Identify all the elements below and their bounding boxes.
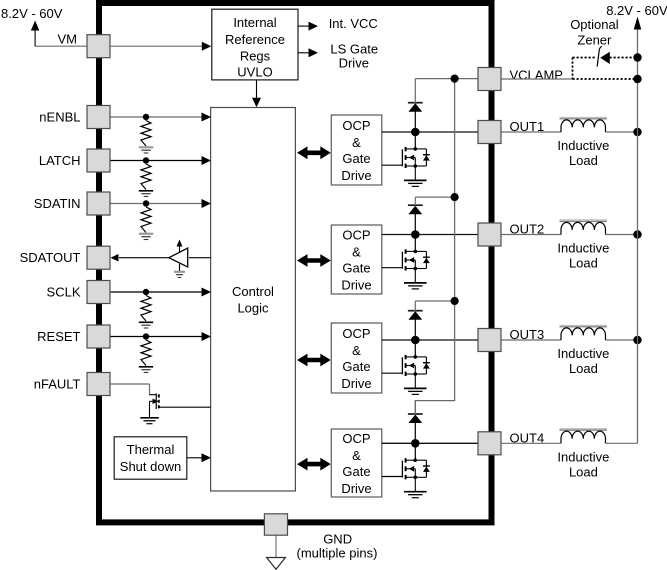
svg-text:OCP: OCP [342, 431, 370, 446]
wire: MOSFET 2 source to ground [414, 269, 416, 283]
pin: nFAULT [87, 373, 110, 396]
pin: RESET [87, 325, 110, 348]
wire: MOSFET 3 source to ground [414, 374, 416, 388]
pin: LATCH [87, 149, 110, 172]
wire: OCP 3 output to OUT3 pin [382, 339, 478, 341]
svg-text:Inductive: Inductive [557, 450, 609, 465]
svg-text:Load: Load [569, 465, 598, 480]
diode: optional zener (cathode left) [597, 46, 602, 66]
wire: OUT1 pin to inductive load [501, 131, 561, 133]
node: OUT4 junction [411, 439, 420, 448]
svg-text:nFAULT: nFAULT [34, 377, 81, 392]
wire: load 4 to supply rail [606, 442, 638, 444]
inductor: OUT1 inductive load [560, 116, 608, 118]
wire: OUT3 pin to inductive load [501, 339, 561, 341]
pin: VCLAMP [478, 68, 501, 91]
transistor M3: low-side NMOS [401, 357, 403, 374]
block: Control Logic [211, 108, 296, 492]
svg-text:OCP: OCP [342, 228, 370, 243]
wire: zener branch dotted upper right [610, 57, 635, 59]
wire: thermal shutdown to control logic (arrow) [187, 457, 203, 459]
inductor: OUT3 inductive load [560, 324, 608, 326]
wire: diode anode to OUT junction [414, 422, 416, 440]
wire: load 1 to supply rail [606, 131, 638, 133]
wire: junction to MOSFET drain [414, 340, 416, 356]
wire: supply vertical with up arrow [34, 31, 36, 47]
svg-text:RESET: RESET [37, 329, 80, 344]
node: clamp bus junction 1 [451, 75, 459, 83]
svg-text:Int. VCC: Int. VCC [329, 16, 378, 31]
pin: SCLK [87, 281, 110, 304]
svg-text:Drive: Drive [341, 168, 371, 183]
wire: reference block to control logic (down arrow) [256, 80, 258, 99]
ground: RESET pulldown ground [139, 366, 153, 368]
svg-text:&: & [352, 135, 361, 150]
junction node on RESET line [143, 333, 149, 339]
svg-text:SCLK: SCLK [47, 285, 81, 300]
transistor M1: low-side NMOS [401, 149, 403, 166]
wire: LS Gate Drive output arrow [298, 52, 309, 54]
svg-text:nENBL: nENBL [39, 110, 80, 125]
svg-text:Drive: Drive [339, 55, 369, 70]
wire: MOSFET 1 source to ground [414, 166, 416, 180]
wire: Int. VCC output arrow [298, 25, 309, 27]
svg-text:VCLAMP: VCLAMP [510, 68, 563, 83]
svg-text:Thermal: Thermal [127, 442, 175, 457]
pin: OUT4 [478, 432, 501, 455]
pin: OUT3 [478, 329, 501, 352]
wire: RESET pin to control logic [110, 336, 203, 338]
wire: load 2 to supply rail [606, 234, 638, 236]
svg-text:Load: Load [569, 153, 598, 168]
svg-text:8.2V - 60V: 8.2V - 60V [1, 6, 63, 21]
wire: OCP 2 output to OUT2 pin [382, 234, 478, 236]
svg-text:SDATIN: SDATIN [34, 196, 81, 211]
junction node on nENBL line [143, 114, 149, 120]
svg-text:Reference: Reference [225, 32, 285, 47]
block: Thermal Shut down [114, 437, 187, 479]
ground: MOSFET 2 source ground [404, 282, 427, 284]
wire: diode anode to OUT junction [414, 319, 416, 337]
wire: load 3 to supply rail [606, 339, 638, 341]
svg-text:SDATOUT: SDATOUT [20, 250, 81, 265]
svg-text:Inductive: Inductive [557, 241, 609, 256]
svg-text:GND: GND [323, 532, 352, 547]
wire: diode anode to OUT junction [414, 214, 416, 232]
wire: junction to MOSFET drain [414, 443, 416, 459]
svg-text:Optional: Optional [570, 17, 619, 32]
junction node on SCLK line [143, 289, 149, 295]
wire: OCP 1 gate drive to MOSFET [382, 164, 403, 166]
ground: SCLK pulldown ground [139, 321, 153, 323]
node: rail junction OUT2 [633, 230, 641, 238]
pin: SDATIN [87, 192, 110, 215]
node: clamp bus junction 3 [451, 297, 459, 305]
wire: OCP 2 gate drive to MOSFET [382, 267, 403, 269]
wire: VM supply horizontal [35, 45, 87, 47]
wire: right supply rail vertical [637, 29, 639, 443]
svg-text:Drive: Drive [341, 376, 371, 391]
wire: GND pin to ground symbol [275, 535, 277, 557]
svg-text:Gate: Gate [342, 261, 370, 276]
pin: nENBL [87, 106, 110, 129]
transistor M2: low-side NMOS [401, 252, 403, 269]
IC device outline [99, 3, 492, 522]
node: rail junction OUT3 [633, 336, 641, 344]
resistor: SCLK pulldown [141, 296, 151, 322]
svg-text:Logic: Logic [237, 301, 269, 316]
wire: fault MOSFET drain to control logic [159, 406, 211, 408]
svg-text:&: & [352, 343, 361, 358]
node: OUT1 junction [411, 128, 420, 137]
ground: GND open triangle symbol [267, 558, 286, 570]
svg-text:(multiple pins): (multiple pins) [297, 545, 378, 560]
wire: SCLK pin to control logic [110, 291, 203, 293]
wire: MOSFET 4 source to ground [414, 478, 416, 492]
ground: buffer ground [174, 271, 185, 273]
svg-text:OCP: OCP [342, 118, 370, 133]
wire: VCLAMP wire from diode 1 to pin [415, 78, 478, 80]
block: OCP & Gate Drive channel 2 [331, 225, 382, 294]
wire: control logic to output buffer [189, 257, 211, 259]
ground: MOSFET 4 source ground [404, 491, 427, 493]
wire: buffer supply arrow up [179, 246, 181, 252]
svg-text:Load: Load [569, 361, 598, 376]
junction node on LATCH line [143, 157, 149, 163]
inductor: OUT2 inductive load [560, 219, 608, 221]
wire: buffer to SDATOUT pin (arrow left) [119, 257, 169, 259]
wire: VCLAMP pin to zener branch (solid) [501, 78, 573, 80]
wire: control logic to OCP 2 double arrow [306, 258, 323, 263]
wire: LATCH pin to control logic [110, 160, 203, 162]
resistor: nENBL pulldown [141, 121, 151, 147]
block: OCP & Gate Drive channel 3 [331, 323, 382, 393]
svg-text:LS Gate: LS Gate [330, 41, 378, 56]
wire: diode anode to OUT junction [414, 111, 416, 129]
ground: MOSFET 3 source ground [404, 387, 427, 389]
pin: OUT2 [478, 223, 501, 246]
pin: OUT1 [478, 121, 501, 144]
svg-text:VM: VM [58, 32, 78, 47]
wire: junction to MOSFET drain [414, 235, 416, 251]
junction node on SDATIN line [143, 200, 149, 206]
pin: GND [264, 514, 287, 535]
transistor: nFAULT open-drain MOSFET [150, 394, 157, 396]
resistor: RESET pulldown [141, 340, 151, 366]
wire: buffer to ground [179, 264, 181, 272]
svg-text:UVLO: UVLO [237, 65, 272, 80]
svg-text:Internal: Internal [233, 15, 276, 30]
svg-text:OCP: OCP [342, 326, 370, 341]
wire: control logic to OCP 1 double arrow [306, 151, 323, 156]
wire: OCP 3 gate drive to MOSFET [382, 372, 403, 374]
ground: fault MOSFET ground [140, 417, 158, 419]
svg-text:Drive: Drive [341, 277, 371, 292]
wire: fault MOSFET source to ground [149, 401, 151, 417]
wire: OCP 4 output to OUT4 pin [382, 442, 478, 444]
wire: OUT2 pin to inductive load [501, 234, 561, 236]
svg-text:Load: Load [569, 256, 598, 271]
wire: zener branch dotted upper left [573, 57, 597, 59]
inductor: OUT4 inductive load [560, 428, 608, 430]
wire: OUT4 pin to inductive load [501, 442, 561, 444]
block: OCP & Gate Drive channel 4 [331, 429, 382, 497]
svg-text:&: & [352, 448, 361, 463]
svg-text:Drive: Drive [341, 481, 371, 496]
svg-text:Shut down: Shut down [120, 459, 181, 474]
block: OCP & Gate Drive channel 1 [331, 115, 382, 185]
wire: nFAULT pin to fault transistor gate [110, 383, 150, 385]
wire: diode 2 jog to clamp bus [415, 196, 454, 198]
pin: SDATOUT [87, 246, 110, 269]
ground: MOSFET 1 source ground [404, 179, 427, 181]
svg-text:Gate: Gate [342, 151, 370, 166]
svg-text:Gate: Gate [342, 359, 370, 374]
op-amp buffer: SDATOUT driver [169, 248, 188, 267]
ground: LATCH pulldown ground [139, 190, 153, 192]
wire: diode 3 jog to clamp bus [415, 300, 454, 302]
wire: VM pin to reference block (arrow) [110, 45, 203, 47]
wire: zener branch dotted lower [573, 78, 635, 80]
ground: nENBL pulldown ground [139, 146, 153, 148]
svg-text:Regs: Regs [240, 49, 271, 64]
ground: SDATIN pulldown ground [139, 233, 153, 235]
wire: nENBL pin to control logic [110, 116, 203, 118]
wire: clamp bus vertical (diode cathode bus) [415, 79, 454, 414]
node: clamp bus junction 2 [451, 193, 459, 201]
node: OUT2 junction [411, 230, 420, 239]
svg-text:Gate: Gate [342, 464, 370, 479]
wire: OCP 4 gate drive to MOSFET [382, 476, 403, 478]
resistor: LATCH pulldown [141, 164, 151, 190]
wire: OCP 1 output to OUT1 pin [382, 131, 478, 133]
svg-text:Inductive: Inductive [557, 346, 609, 361]
svg-text:8.2V - 60V: 8.2V - 60V [606, 3, 667, 18]
pin: VM [87, 35, 110, 58]
svg-text:Control: Control [232, 284, 274, 299]
block: Internal Reference Regs UVLO [212, 9, 298, 80]
svg-text:LATCH: LATCH [39, 153, 81, 168]
transistor M4: low-side NMOS [401, 461, 403, 478]
svg-text:Zener: Zener [577, 33, 612, 48]
wire: junction to MOSFET drain [414, 132, 416, 148]
wire: control logic to OCP 4 double arrow [306, 462, 323, 467]
node: zener upper rail junction [633, 53, 641, 61]
wire: zener branch dotted vertical [572, 58, 574, 80]
node: OUT3 junction [411, 336, 420, 345]
svg-text:Inductive: Inductive [557, 138, 609, 153]
node: zener lower rail junction [633, 75, 641, 83]
svg-text:&: & [352, 244, 361, 259]
resistor: SDATIN pulldown [141, 207, 151, 233]
node: rail junction OUT1 [633, 128, 641, 136]
wire: control logic to OCP 3 double arrow [306, 358, 323, 363]
wire: SDATIN pin to control logic [110, 203, 203, 205]
